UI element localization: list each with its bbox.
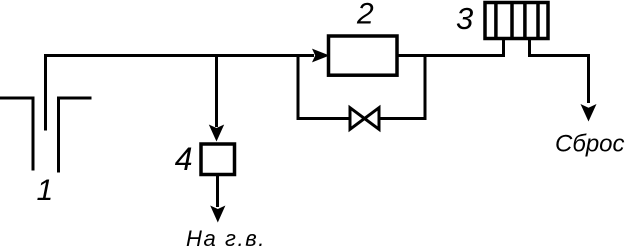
arrowhead to discharge — [581, 104, 597, 122]
wire: riser into radiator 3 — [502, 39, 505, 57]
wire: bypass bottom run right and right leg up — [380, 54, 426, 119]
svg-text:Сброс: Сброс — [555, 131, 625, 158]
svg-text:2: 2 — [356, 0, 374, 30]
well casing right wall — [59, 98, 92, 173]
radiator section divider 2 — [510, 2, 514, 39]
wire: branch down to unit 4 — [215, 54, 218, 127]
radiator section divider 1 — [494, 2, 498, 39]
svg-text:4: 4 — [175, 141, 193, 177]
svg-text:3: 3 — [456, 1, 473, 36]
wire: bypass left leg and bottom run — [298, 54, 349, 119]
svg-text:1: 1 — [37, 174, 54, 207]
radiator section divider 4 — [536, 2, 540, 39]
wire: outlet below unit 4 — [216, 176, 219, 207]
heat exchanger box 4 — [201, 144, 235, 175]
arrowhead into unit 2 — [312, 49, 330, 63]
unit 2 rectangle — [329, 36, 398, 75]
radiator 3 body — [485, 3, 548, 39]
well casing left wall — [0, 98, 33, 171]
valve left triangle — [350, 108, 365, 130]
wire: unit 2 outlet to radiator riser — [397, 54, 504, 57]
arrowhead to hot water supply — [210, 206, 225, 223]
wire: radiator outlet down-pipe — [528, 39, 531, 57]
arrowhead into unit 4 — [209, 125, 224, 142]
radiator section divider 3 — [523, 2, 527, 39]
wire: discharge run and down leg — [530, 56, 589, 104]
svg-text:На г.в.: На г.в. — [186, 226, 266, 248]
wire: well pipe up and main supply line — [46, 56, 315, 131]
valve right triangle — [365, 108, 380, 130]
